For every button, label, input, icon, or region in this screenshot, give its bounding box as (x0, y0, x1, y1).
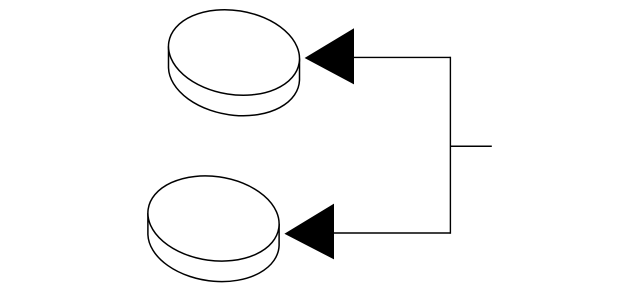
vertical bus wire (449, 57, 451, 234)
arrowhead A2 (points left at disc D2) (284, 204, 334, 260)
disc D1 (top cylinder) top face ellipse (162, 1, 306, 105)
disc D2 (bottom cylinder) side wall and bottom arc (148, 213, 279, 281)
disc D1 (top cylinder) side wall and bottom arc (169, 46, 300, 115)
disc D2 (bottom cylinder) top face ellipse (142, 168, 284, 270)
wire from arrowhead A1 to vertical bus (354, 56, 451, 58)
stub wire at mid of vertical bus (450, 145, 491, 147)
wire from arrowhead A2 to vertical bus (334, 232, 451, 234)
arrowhead A1 (points left at disc D1) (305, 28, 354, 84)
